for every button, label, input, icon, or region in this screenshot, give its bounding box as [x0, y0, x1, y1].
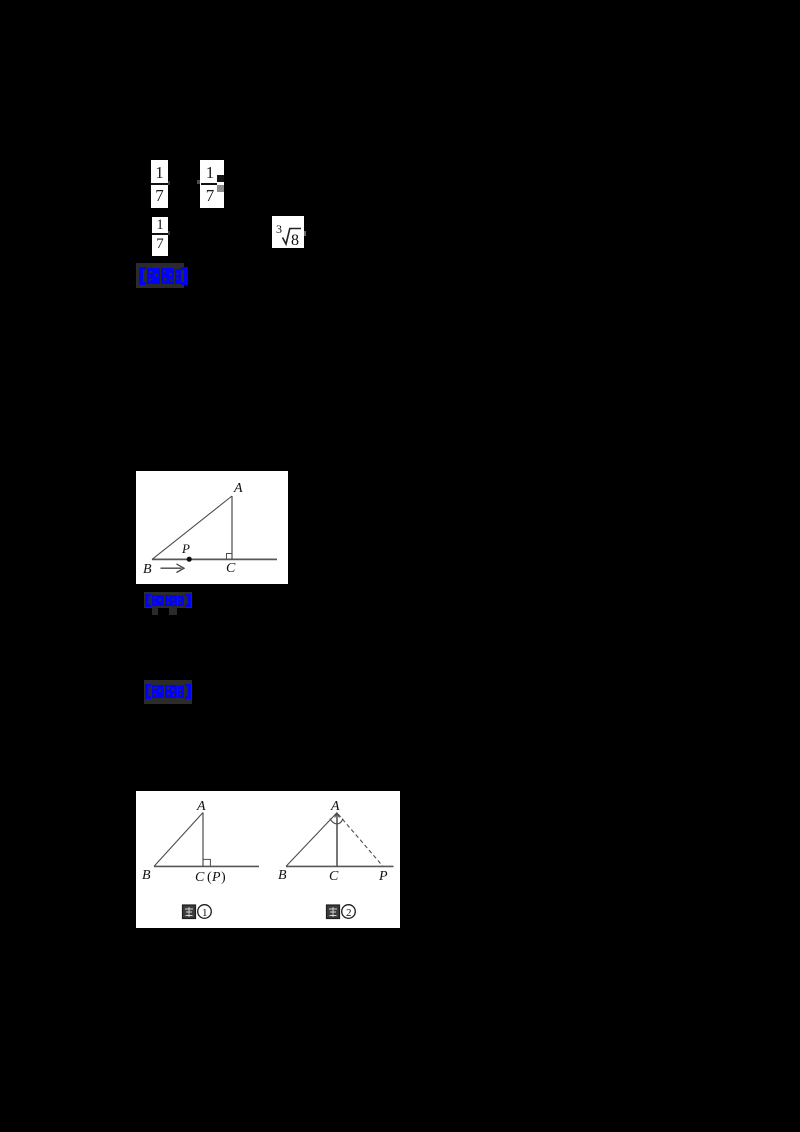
right: caption 图2: [327, 905, 356, 919]
svg-text:B: B: [143, 562, 152, 577]
right: fold arc mark below A: [330, 819, 343, 825]
gray artifact square on F2: [217, 185, 224, 192]
side BA: [152, 496, 232, 559]
svg-text:1: 1: [202, 907, 208, 919]
right: dashed AP: [338, 814, 383, 866]
svg-text:2: 2: [346, 907, 352, 919]
baseline through B C: [152, 558, 277, 560]
svg-text:8: 8: [291, 232, 299, 248]
blue header H3: [144, 680, 192, 704]
svg-text:C: C: [195, 870, 205, 885]
right angle at C: [227, 554, 233, 560]
fraction 1/7 box F2: [200, 160, 224, 208]
point P dot: [187, 557, 192, 562]
right: side BA: [286, 813, 337, 867]
right: baseline through B C P: [286, 865, 394, 867]
left: altitude AC: [202, 813, 204, 867]
blue header H1: [136, 263, 184, 288]
right: altitude arrow CA: [336, 813, 338, 866]
svg-text:C: C: [329, 869, 339, 884]
tick left of F2: [197, 180, 200, 184]
svg-text:A: A: [196, 799, 206, 814]
svg-text:C: C: [226, 561, 236, 576]
dark artifact square on F2: [217, 175, 224, 182]
svg-text:P: P: [211, 870, 221, 885]
right: small arrowhead at A: [335, 813, 340, 818]
svg-text:P: P: [181, 541, 190, 556]
figure 2 white box: [136, 791, 400, 928]
gray tab b under H2: [169, 608, 177, 615]
svg-text:A: A: [330, 799, 340, 814]
tick right of F4: [304, 231, 306, 236]
left: baseline through B C(P): [154, 865, 259, 867]
svg-text:B: B: [142, 868, 151, 883]
svg-text:3: 3: [276, 222, 282, 236]
bar nub right of F1: [168, 181, 170, 185]
figure 1 white box: [136, 471, 288, 584]
left: right angle at C: [203, 859, 210, 866]
bar nub right of F3: [168, 231, 170, 235]
arrow under B: [161, 567, 182, 569]
svg-text:): ): [221, 870, 226, 885]
altitude AC: [231, 496, 233, 559]
left: caption 图1: [183, 905, 212, 919]
cube root of 8 box F4: [272, 216, 304, 248]
svg-text:B: B: [278, 868, 287, 883]
svg-text:A: A: [233, 481, 243, 496]
fraction 1/7 box F3: [152, 217, 168, 256]
left: side BA: [154, 813, 203, 867]
gray tab a under H2: [152, 608, 158, 615]
fraction 1/7 box F1: [151, 160, 168, 208]
blue header H2: [144, 592, 192, 608]
svg-text:P: P: [378, 869, 388, 884]
